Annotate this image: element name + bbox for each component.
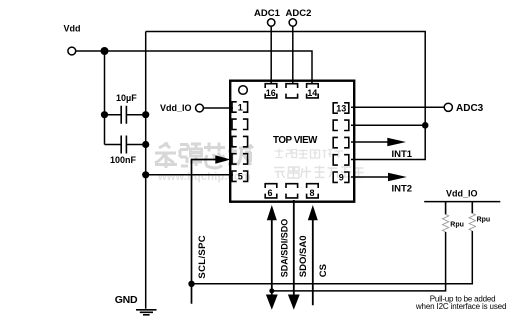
resistor Rpu2 zigzag: [469, 213, 475, 231]
pin 13 (right): [333, 103, 349, 113]
resistor Rpu1 lead top: [445, 202, 447, 215]
wire INT2: [351, 176, 391, 178]
pin 7 (bottom middle): [286, 184, 298, 198]
svg-text:ADC1: ADC1: [254, 8, 281, 19]
svg-text:SDO/SA0: SDO/SA0: [298, 235, 309, 277]
pin 14 (top): [307, 84, 319, 98]
wire SCL to Rpu2: [192, 231, 473, 284]
wire CS vertical: [312, 217, 314, 305]
pin 16 (top): [265, 84, 277, 98]
pin 12 (right): [333, 120, 349, 130]
wire pin 12: [351, 124, 425, 126]
pin 6 (bottom): [265, 184, 277, 198]
svg-text:Rpu: Rpu: [450, 221, 464, 228]
resistor Rpu1 zigzag: [442, 214, 448, 232]
svg-text:9: 9: [339, 173, 344, 183]
wire ADC2 to pin 15: [292, 26, 294, 84]
wire pin 13 to ADC3: [351, 106, 444, 108]
svg-text:GND: GND: [115, 294, 138, 306]
wire top ground line to pins 12/10: [146, 32, 426, 160]
svg-text:6: 6: [267, 188, 272, 198]
svg-text:ADC2: ADC2: [286, 8, 312, 19]
pin-1 indicator circle: [239, 86, 248, 95]
junction Vdd rail: [101, 47, 109, 55]
pin 11 (right): [333, 137, 349, 147]
ADC1 terminal circle: [268, 19, 275, 26]
resistor Rpu2 lead top: [471, 202, 473, 214]
svg-text:10µF: 10µF: [116, 93, 137, 103]
svg-text:Vdd_IO: Vdd_IO: [446, 189, 478, 199]
svg-text:SDA/SDI/SDO: SDA/SDI/SDO: [280, 219, 290, 278]
pin 10 (right): [333, 155, 349, 165]
arrow into pin 4: [215, 155, 230, 164]
pin 9 (right): [333, 172, 349, 182]
svg-text:14: 14: [307, 88, 317, 98]
wire INT1: [351, 141, 390, 143]
svg-text:www.hqchip.com: www.hqchip.com: [157, 171, 251, 183]
pin 8 (bottom): [307, 184, 319, 198]
svg-text:CS: CS: [318, 264, 329, 277]
arrow INT2: [388, 173, 407, 182]
ADC2 terminal circle: [289, 19, 296, 26]
GND rail wire: [145, 32, 147, 309]
arrow INT1: [387, 138, 406, 147]
ground symbol: [136, 310, 157, 315]
junction C1 right: [142, 111, 149, 118]
pin 4 (left): [232, 154, 248, 164]
arrow SDO down: [288, 295, 300, 310]
arrow SDA down: [266, 295, 278, 310]
Vdd terminal circle: [68, 47, 76, 55]
watermark big text (simulated CJK glyphs): [155, 143, 253, 169]
svg-text:INT1: INT1: [392, 149, 413, 160]
svg-text:8: 8: [309, 188, 314, 198]
wire SDA/SDI/SDO vertical: [271, 217, 273, 296]
svg-text:when I2C interface is used: when I2C interface is used: [415, 302, 506, 311]
wire Vdd_IO to pin 1: [203, 107, 233, 109]
wire SDA to Rpu1: [272, 232, 446, 291]
svg-text:ADC3: ADC3: [456, 103, 484, 114]
pin 15 (top middle): [286, 84, 298, 98]
pin 1 (left): [232, 102, 248, 112]
svg-text:Vdd: Vdd: [64, 23, 81, 33]
svg-text:SCL/SPC: SCL/SPC: [197, 235, 208, 279]
wire Vdd to pin 14: [76, 51, 312, 84]
svg-text:Vdd_IO: Vdd_IO: [160, 103, 192, 113]
svg-text:Rpu: Rpu: [477, 217, 491, 224]
junction C1 left: [101, 111, 108, 118]
chip body U1: [230, 81, 354, 202]
pin 5 (left): [232, 171, 248, 181]
svg-text:100nF: 100nF: [110, 155, 137, 165]
junction C2 right: [142, 141, 149, 148]
capacitor C1 10uF: [105, 106, 146, 124]
pin 3 (left): [232, 136, 248, 146]
svg-text:1: 1: [238, 103, 243, 113]
wire pin 5 to GND rail: [146, 174, 233, 176]
junction pin 12: [422, 122, 429, 129]
junction pin5/GND rail: [142, 171, 149, 178]
svg-text:INT2: INT2: [392, 183, 413, 194]
wire ADC1 to pin 16: [270, 26, 272, 84]
arrow SDA up into pin 6: [267, 205, 277, 220]
pin 2 (left): [232, 119, 248, 129]
svg-text:13: 13: [336, 104, 346, 114]
Vdd_IO terminal circle: [196, 104, 204, 112]
ADC3 terminal circle: [444, 103, 452, 111]
watermark line 元器件在线商城 (simulated): [274, 165, 364, 179]
junction SCL: [188, 281, 194, 287]
wire SDO/SA0 vertical: [293, 200, 295, 296]
arrow CS up into pin 8: [308, 205, 318, 220]
svg-text:TOP VIEW: TOP VIEW: [273, 135, 318, 146]
watermark line 华强集团旗下 (simulated): [275, 149, 344, 159]
wire SCL/SPC vertical: [192, 160, 217, 304]
svg-text:5: 5: [238, 172, 243, 182]
wire Vdd cap rail: [104, 51, 106, 145]
Vdd_IO rail: [424, 201, 500, 203]
capacitor C2 100nF: [105, 136, 146, 154]
junction SDA: [269, 288, 274, 293]
svg-text:16: 16: [266, 88, 276, 98]
